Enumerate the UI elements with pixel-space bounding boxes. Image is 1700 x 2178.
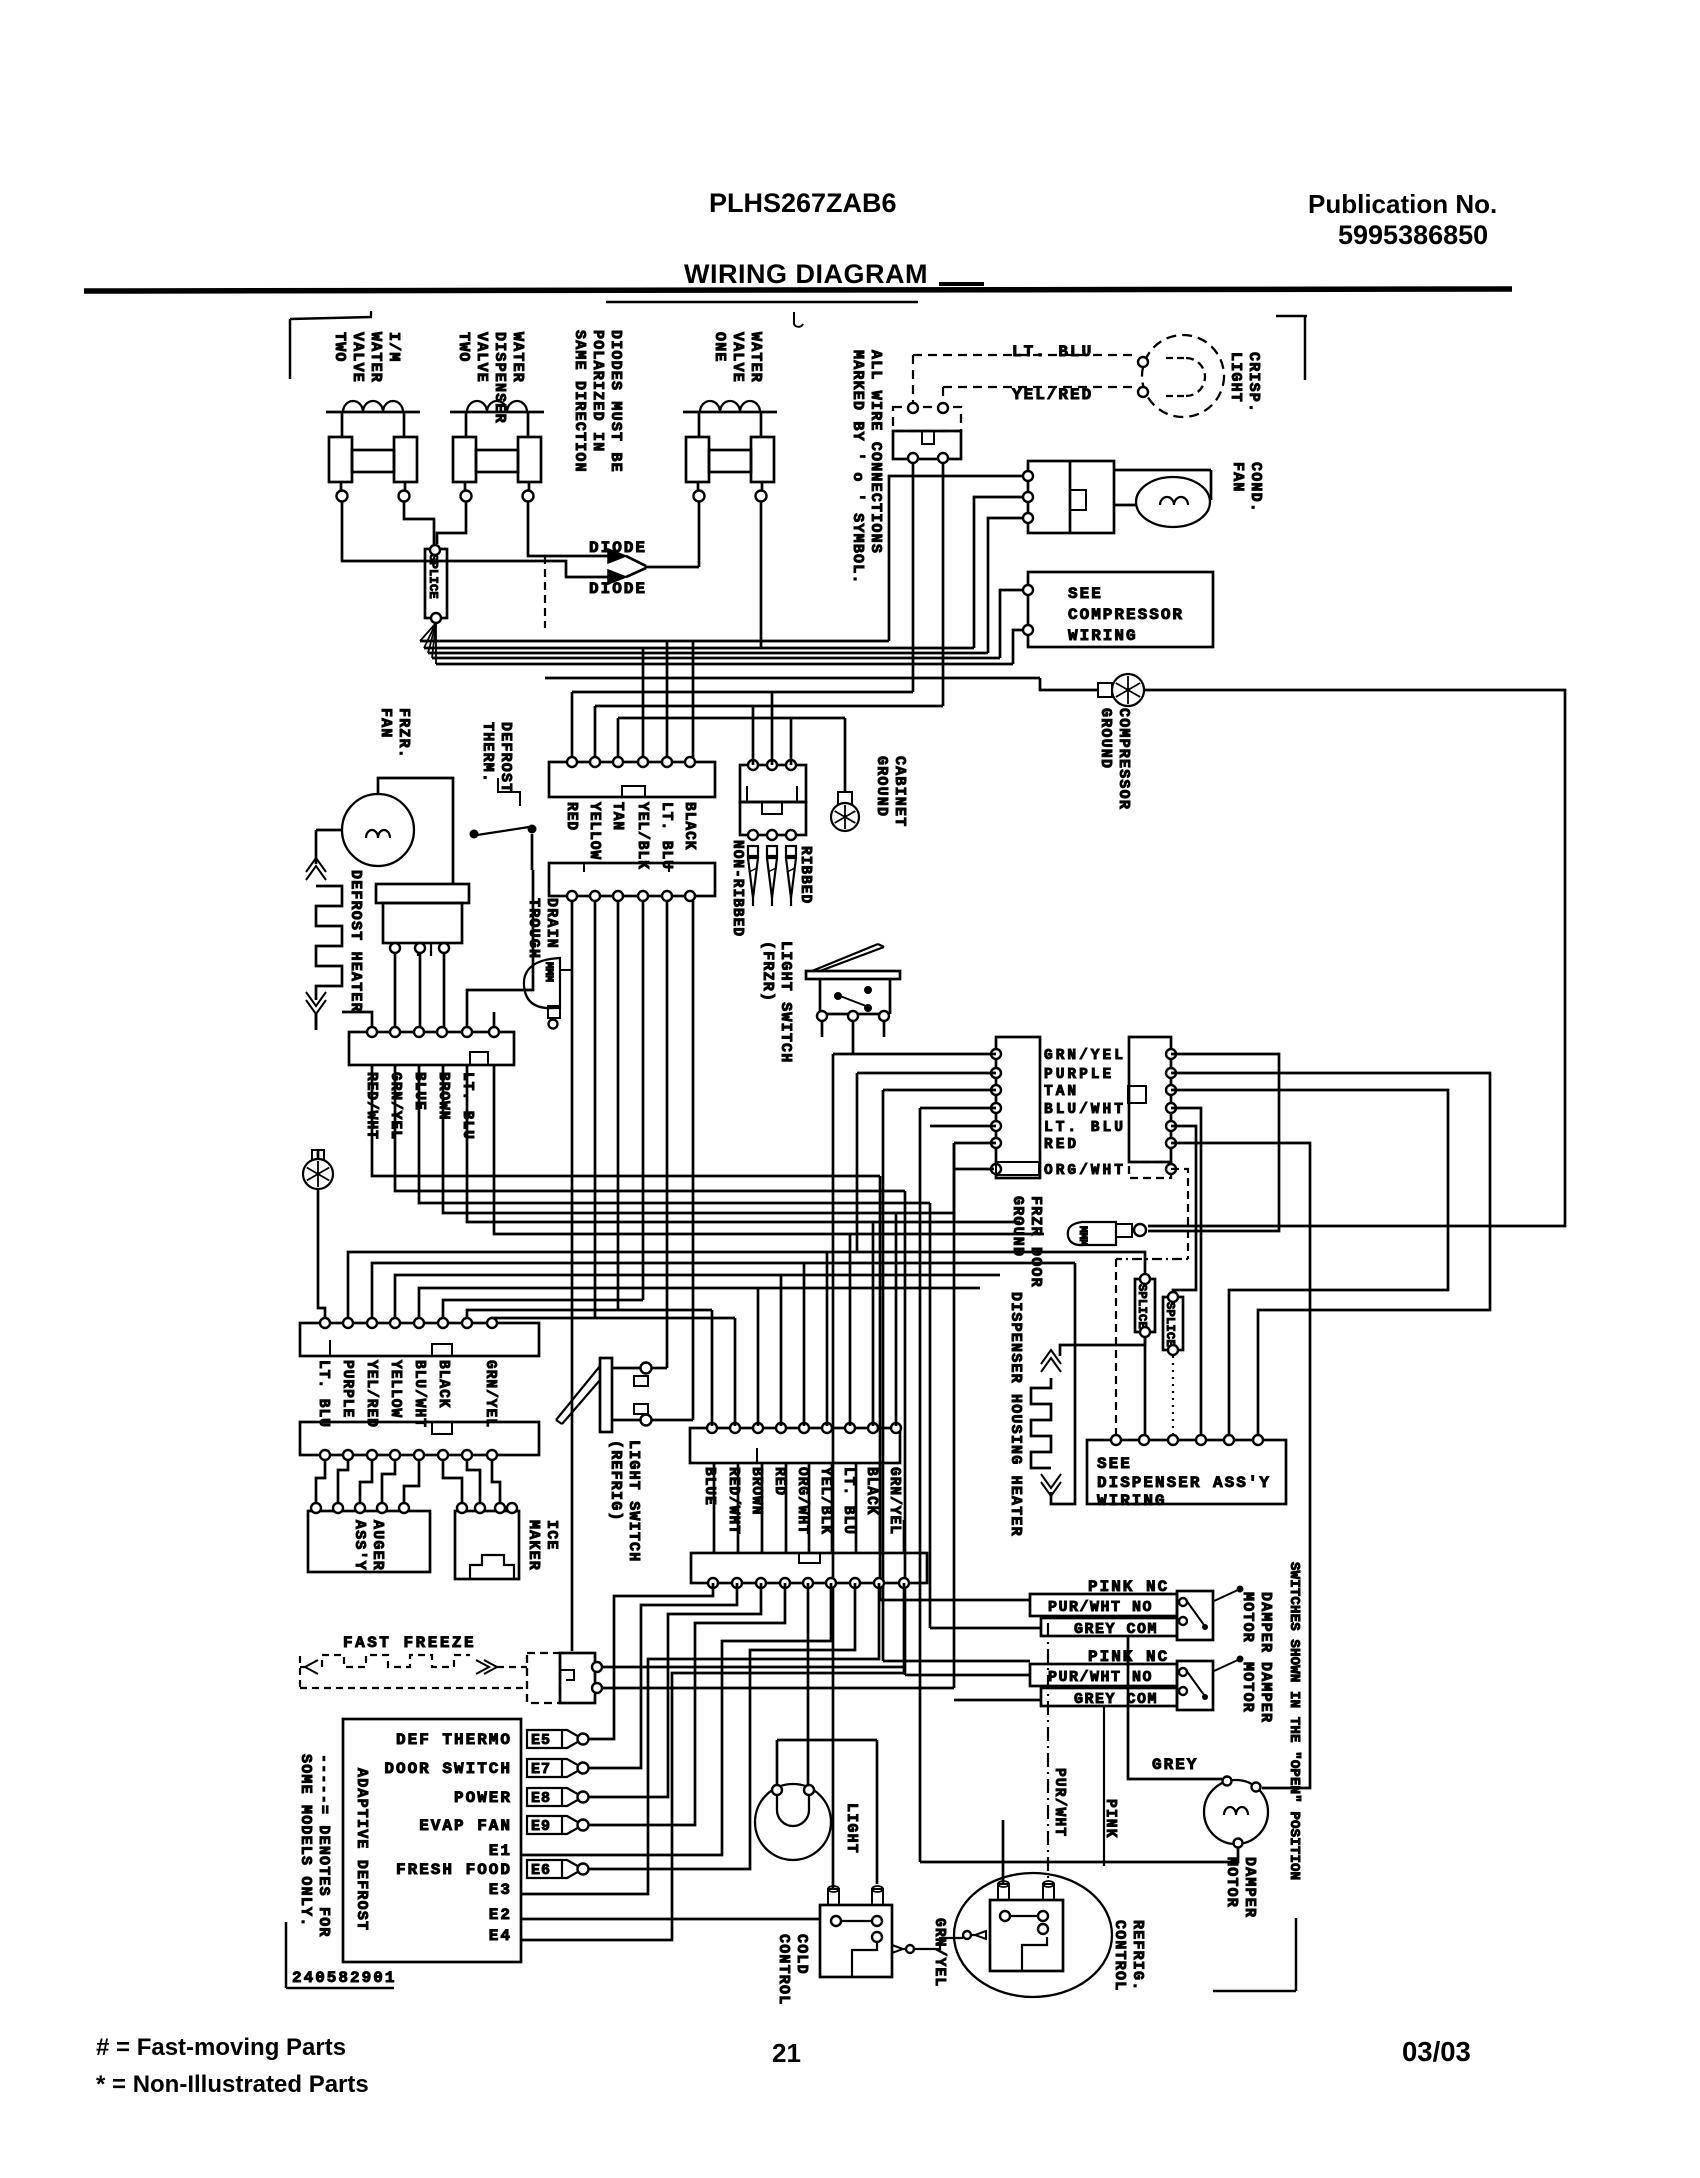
svg-text:Publication No.: Publication No. — [1308, 189, 1497, 219]
svg-text:LT. BLU: LT. BLU — [840, 1467, 856, 1535]
svg-text:SPLICE: SPLICE — [426, 554, 440, 599]
svg-text:E1: E1 — [489, 1842, 512, 1860]
svg-text:WIRING DIAGRAM: WIRING DIAGRAM — [684, 259, 928, 289]
svg-text:PUR/WHT: PUR/WHT — [1051, 1768, 1067, 1837]
svg-text:E2: E2 — [489, 1906, 512, 1924]
svg-text:TAN: TAN — [1044, 1084, 1079, 1100]
svg-text:CABINETGROUND: CABINETGROUND — [873, 756, 908, 827]
svg-text:DOOR SWITCH: DOOR SWITCH — [384, 1760, 512, 1778]
svg-text:AUGERASS'Y: AUGERASS'Y — [351, 1520, 386, 1571]
svg-text:GREY COM: GREY COM — [1074, 1691, 1158, 1708]
svg-text:ORG/WHT: ORG/WHT — [794, 1467, 810, 1535]
svg-text:* = Non-Illustrated Parts: * = Non-Illustrated Parts — [96, 2071, 369, 2098]
svg-text:SPLICE: SPLICE — [1163, 1302, 1177, 1347]
svg-text:03/03: 03/03 — [1402, 2036, 1471, 2067]
svg-text:ALL WIRE CONNECTIONSMARKED BY: ALL WIRE CONNECTIONSMARKED BY ' o ' SYMB… — [849, 350, 884, 585]
svg-text:240582901: 240582901 — [292, 1969, 396, 1987]
svg-text:BLACK: BLACK — [681, 802, 697, 851]
svg-text:COMPRESSOR: COMPRESSOR — [1068, 606, 1184, 624]
svg-text:DIODE: DIODE — [589, 580, 647, 598]
svg-text:GREY COM: GREY COM — [1074, 1621, 1158, 1638]
svg-text:E6: E6 — [531, 1862, 551, 1879]
svg-text:TAN: TAN — [609, 802, 625, 831]
svg-text:DIODE: DIODE — [589, 539, 647, 557]
svg-text:PUR/WHT NO: PUR/WHT NO — [1048, 1599, 1153, 1616]
svg-text:PUR/WHT NO: PUR/WHT NO — [1048, 1669, 1153, 1686]
svg-text:# = Fast-moving Parts: # = Fast-moving Parts — [96, 2034, 346, 2061]
svg-text:LT. BLU: LT. BLU — [315, 1360, 331, 1428]
svg-text:E3: E3 — [489, 1881, 512, 1899]
svg-text:BLACK: BLACK — [863, 1467, 879, 1516]
svg-text:E9: E9 — [531, 1818, 551, 1835]
svg-text:GRN/YEL: GRN/YEL — [482, 1360, 498, 1428]
svg-text:SEE: SEE — [1068, 585, 1103, 603]
svg-text:BLU/WHT: BLU/WHT — [1044, 1102, 1126, 1118]
svg-text:YEL/BLK: YEL/BLK — [634, 802, 650, 870]
svg-text:RED: RED — [563, 802, 579, 831]
svg-text:E4: E4 — [489, 1927, 512, 1945]
svg-text:SWITCHES SHOWN IN THE "OPEN" P: SWITCHES SHOWN IN THE "OPEN" POSITION — [1286, 1562, 1302, 1880]
svg-text:RED: RED — [1044, 1137, 1079, 1153]
svg-text:PLHS267ZAB6: PLHS267ZAB6 — [709, 188, 897, 218]
svg-text:GRN/YEL: GRN/YEL — [1044, 1048, 1126, 1064]
svg-text:YEL/RED: YEL/RED — [1012, 386, 1093, 404]
svg-text:ORG/WHT: ORG/WHT — [1044, 1163, 1126, 1179]
svg-text:ADAPTIVE DEFROST: ADAPTIVE DEFROST — [353, 1768, 370, 1931]
svg-text:RIBBED: RIBBED — [797, 846, 813, 904]
svg-text:DEFROST HEATER: DEFROST HEATER — [347, 870, 364, 1013]
svg-text:E7: E7 — [531, 1761, 551, 1778]
svg-text:DEFROSTTHERM.: DEFROSTTHERM. — [479, 722, 514, 793]
svg-text:MMM: MMM — [1076, 1226, 1088, 1246]
svg-text:NON-RIBBED: NON-RIBBED — [729, 840, 745, 937]
svg-text:FAST FREEZE: FAST FREEZE — [343, 1634, 476, 1652]
svg-text:PINK NC: PINK NC — [1088, 1578, 1169, 1596]
svg-text:LT. BLU: LT. BLU — [1012, 343, 1093, 361]
svg-text:DISPENSER ASS'Y: DISPENSER ASS'Y — [1097, 1474, 1271, 1492]
svg-text:RED: RED — [771, 1467, 787, 1496]
svg-text:E8: E8 — [531, 1790, 551, 1807]
svg-text:SPLICE: SPLICE — [1135, 1284, 1149, 1329]
svg-text:DEF THERMO: DEF THERMO — [396, 1731, 512, 1749]
svg-text:PINK: PINK — [1102, 1799, 1118, 1839]
svg-text:BLU/WHT: BLU/WHT — [411, 1360, 427, 1428]
svg-text:WIRING: WIRING — [1068, 627, 1138, 645]
svg-text:-----= DENOTES FORSOME MODELS: -----= DENOTES FORSOME MODELS ONLY. — [297, 1754, 332, 1938]
svg-text:SEE: SEE — [1097, 1455, 1132, 1473]
svg-text:YEL/RED: YEL/RED — [363, 1360, 379, 1428]
svg-text:GRN/YEL: GRN/YEL — [931, 1918, 947, 1987]
svg-text:POWER: POWER — [454, 1789, 512, 1807]
svg-text:FRESH FOOD: FRESH FOOD — [396, 1861, 512, 1879]
svg-text:BLACK: BLACK — [435, 1360, 451, 1409]
svg-text:LT. BLU: LT. BLU — [658, 802, 674, 870]
svg-text:GREY: GREY — [1152, 1756, 1198, 1774]
svg-text:YEL/BLK: YEL/BLK — [817, 1467, 833, 1535]
svg-text:DISPENSER HOUSING HEATER: DISPENSER HOUSING HEATER — [1007, 1292, 1024, 1537]
svg-text:EVAP FAN: EVAP FAN — [419, 1817, 512, 1835]
svg-text:DIODES MUST BEPOLARIZED INSAME: DIODES MUST BEPOLARIZED INSAME DIRECTION — [571, 330, 624, 473]
svg-text:REFRIG.CONTROL: REFRIG.CONTROL — [1111, 1920, 1146, 1991]
svg-text:YELLOW: YELLOW — [586, 802, 602, 860]
svg-text:PURPLE: PURPLE — [1044, 1067, 1114, 1083]
svg-text:GRN/YEL: GRN/YEL — [886, 1467, 902, 1535]
svg-text:WIRING: WIRING — [1097, 1492, 1167, 1510]
svg-text:E5: E5 — [531, 1732, 551, 1749]
svg-text:LIGHT: LIGHT — [843, 1803, 860, 1854]
svg-text:PURPLE: PURPLE — [339, 1360, 355, 1418]
svg-text:LT. BLU: LT. BLU — [1044, 1120, 1126, 1136]
svg-text:5995386850: 5995386850 — [1338, 220, 1488, 250]
svg-text:MMM: MMM — [542, 962, 554, 982]
svg-text:21: 21 — [772, 2038, 801, 2068]
svg-text:YELLOW: YELLOW — [387, 1360, 403, 1418]
